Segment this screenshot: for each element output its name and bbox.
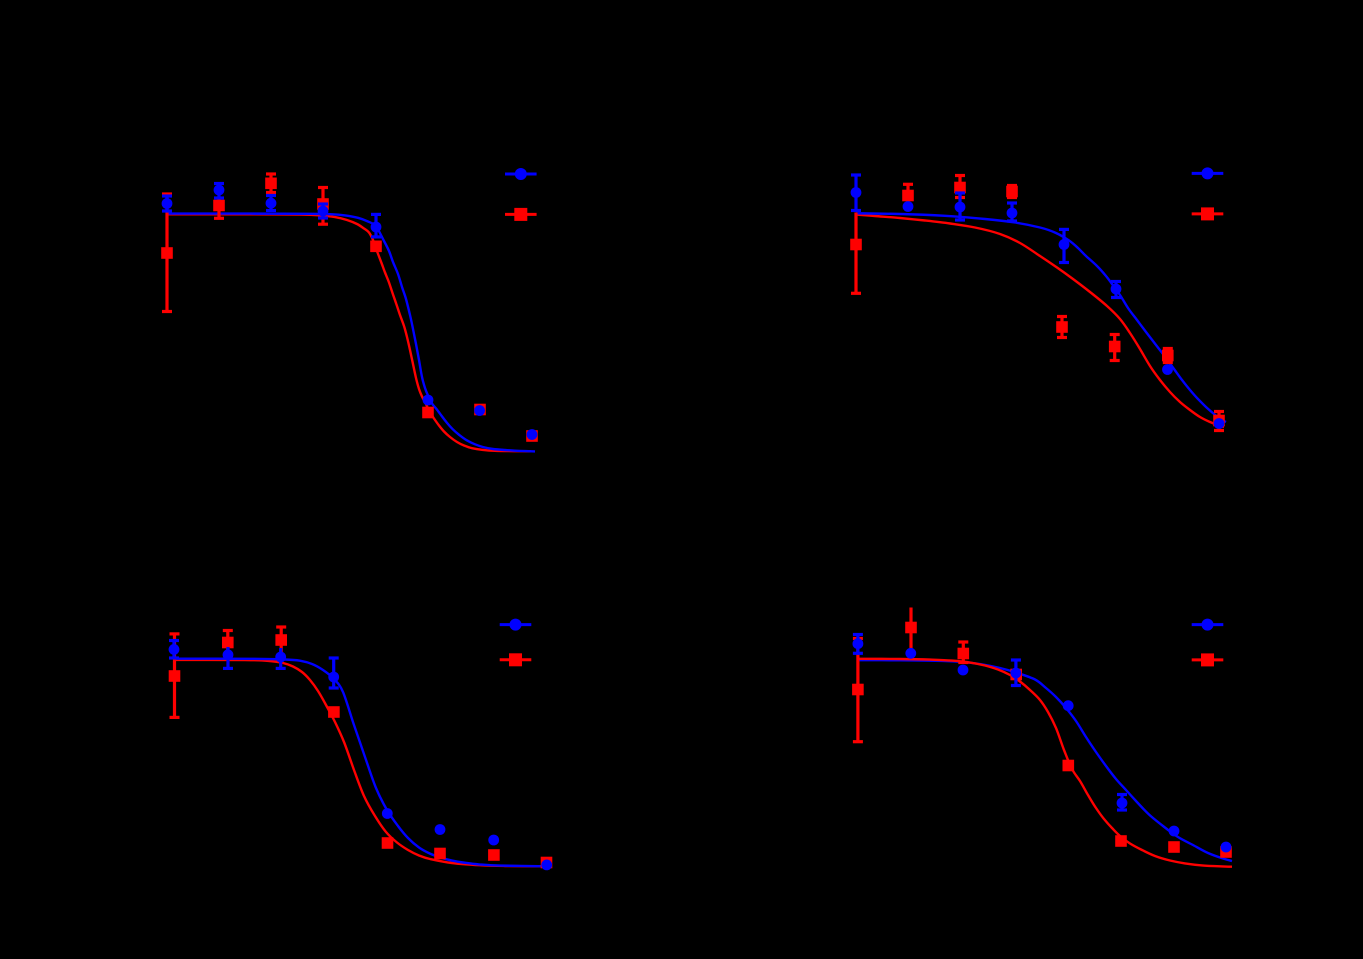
top-left panel red error bars xyxy=(162,174,328,312)
bottom-left panel red fitted curve xyxy=(173,660,543,866)
top-right panel red square data points xyxy=(850,182,1225,427)
top-left panel blue fitted curve xyxy=(166,214,535,452)
top-left panel blue circle data points xyxy=(162,185,538,440)
bottom-left panel blue circle data points xyxy=(169,644,552,870)
top-left panel red square data points xyxy=(161,178,538,442)
legend top-left panel: blue series xyxy=(505,173,537,176)
top-left panel blue error bars xyxy=(162,184,381,237)
top-left panel red fitted curve xyxy=(166,214,531,451)
bottom-left panel red error bars xyxy=(170,627,287,717)
top-right panel blue fitted curve xyxy=(856,213,1226,422)
bottom-left panel red square data points xyxy=(169,634,553,868)
top-right panel red fitted curve xyxy=(856,215,1224,428)
legend top-left panel: red series xyxy=(505,213,537,216)
bottom-right panel blue circle data points xyxy=(853,638,1232,852)
bottom-right panel red error bars xyxy=(853,608,968,742)
top-right panel red error bars xyxy=(851,176,1224,431)
legend bottom-left panel: red series xyxy=(500,658,532,661)
legend top-right panel: red series xyxy=(1192,212,1224,215)
bottom-right panel red fitted curve xyxy=(857,659,1232,867)
bottom-left panel blue error bars xyxy=(169,641,339,689)
bottom-right panel blue error bars xyxy=(853,635,1127,811)
top-right panel blue circle data points xyxy=(851,187,1225,429)
bottom-right panel red square data points xyxy=(852,622,1232,858)
legend top-right panel: blue series xyxy=(1192,172,1224,175)
bottom-right panel blue fitted curve xyxy=(857,660,1232,861)
legend bottom-right panel: blue series xyxy=(1192,623,1224,626)
top-right panel blue error bars xyxy=(851,175,1121,298)
legend bottom-right panel: red series xyxy=(1192,658,1224,661)
legend bottom-left panel: blue series xyxy=(500,623,532,626)
bottom-left panel blue fitted curve xyxy=(173,659,546,867)
